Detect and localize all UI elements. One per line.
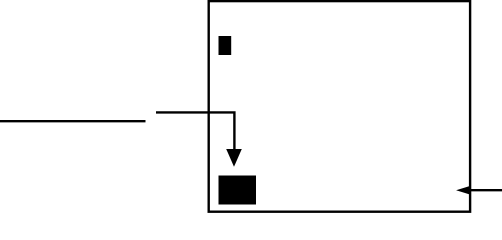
right arrow head (left) xyxy=(456,186,471,195)
elbow arrow wire xyxy=(156,112,234,150)
left horizontal line xyxy=(0,120,146,122)
large filled block (bottom) xyxy=(219,176,257,205)
main box outline xyxy=(209,1,470,212)
elbow arrow head (down) xyxy=(226,149,242,167)
right arrow wire xyxy=(471,189,502,191)
small filled block (top) xyxy=(219,36,232,55)
